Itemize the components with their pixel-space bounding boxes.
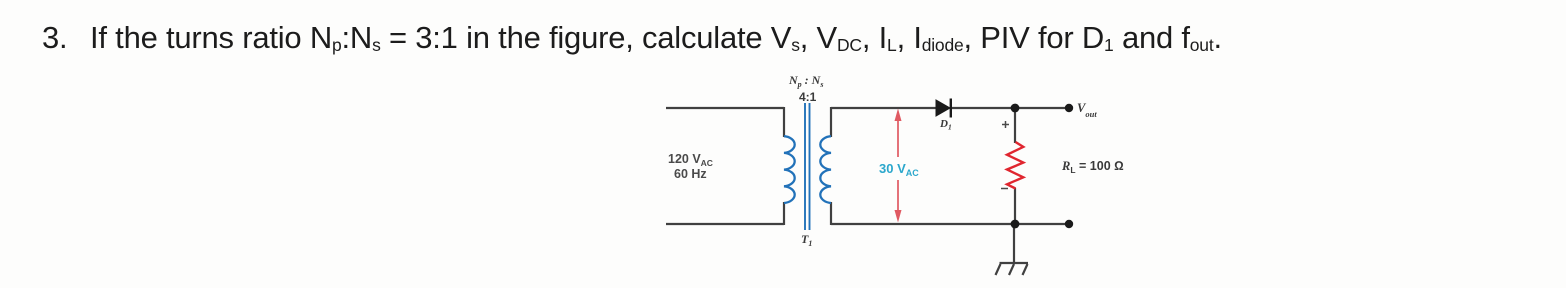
node: output terminal dot (1065, 104, 1073, 112)
wire: resistor branch bottom (1014, 188, 1016, 224)
svg-text:Np : Ns: Np : Ns (788, 73, 823, 89)
transformer T1 secondary winding (820, 136, 831, 203)
wire: primary top lead (666, 107, 784, 109)
polarity plus sign (1002, 121, 1009, 128)
question title text (42, 20, 1222, 56)
wire: secondary top wire to diode anode (831, 107, 937, 109)
node: bottom junction dot (1011, 220, 1020, 229)
svg-text:Vout: Vout (1077, 101, 1097, 119)
svg-text:4:1: 4:1 (799, 90, 817, 104)
svg-text:T1: T1 (801, 232, 812, 248)
wire: diode cathode to output node (951, 107, 1069, 109)
wire: primary bottom lead (666, 223, 784, 225)
wire: primary left-side vertical (top) (783, 107, 785, 137)
svg-text:60 Hz: 60 Hz (674, 167, 707, 181)
node: junction dot top (1011, 104, 1020, 113)
wire: secondary bottom wire (831, 223, 1069, 225)
svg-text:30 VAC: 30 VAC (879, 161, 919, 178)
svg-text:120 VAC: 120 VAC (668, 152, 713, 168)
transformer T1 primary winding (784, 136, 795, 203)
ground symbol (996, 263, 1029, 275)
node: bottom right terminal dot (1065, 220, 1073, 228)
polarity minus sign (1001, 188, 1008, 190)
wire: secondary vertical (top) (830, 107, 832, 137)
diode D1 (936, 99, 951, 118)
resistor RL (red zigzag) (1007, 142, 1023, 189)
transformer T1 core lines (805, 103, 810, 230)
svg-text:D1: D1 (939, 118, 952, 132)
wire: resistor branch top (1014, 108, 1016, 143)
wire: primary left-side vertical (bottom) (783, 202, 785, 225)
wire: secondary vertical (bottom) (830, 202, 832, 225)
svg-text:RL = 100 Ω: RL = 100 Ω (1061, 159, 1124, 175)
wire: ground drop (1013, 224, 1015, 263)
secondary voltage arrow (double-headed, red) (895, 109, 902, 223)
